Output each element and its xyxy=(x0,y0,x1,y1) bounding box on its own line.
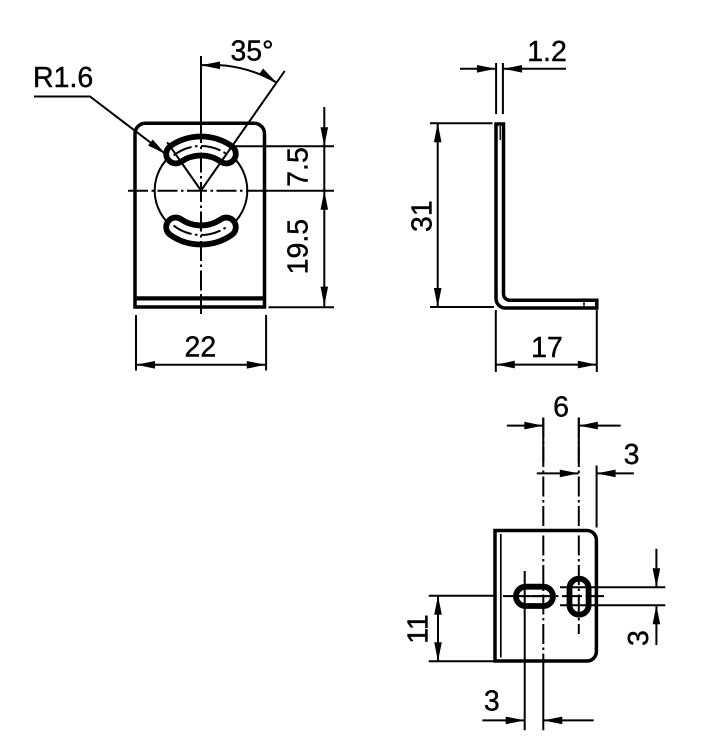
side end tick xyxy=(583,301,585,307)
ext line 1.2 left xyxy=(495,63,497,114)
ext line slot width top xyxy=(560,586,665,588)
R1.6 leader arrow xyxy=(148,139,165,154)
dim 6 left arrow line xyxy=(507,425,544,427)
dim line 11 xyxy=(437,596,439,662)
ext line 11 bottom xyxy=(429,660,494,662)
svg-text:6: 6 xyxy=(553,392,569,424)
svg-text:R1.6: R1.6 xyxy=(33,62,93,94)
dim line 22 xyxy=(136,364,266,366)
front vertical centerline solid upper part xyxy=(200,56,202,123)
ext line center right xyxy=(266,190,334,192)
svg-text:3: 3 xyxy=(484,686,500,718)
ext line slot width bottom xyxy=(560,604,665,606)
dim 3 top left arrow line xyxy=(537,472,579,474)
svg-text:19.5: 19.5 xyxy=(282,219,314,274)
front vertical centerline xyxy=(200,123,202,314)
svg-text:17: 17 xyxy=(531,332,563,364)
front horizontal centerline xyxy=(128,190,268,192)
horizontal slot xyxy=(516,587,553,606)
lower arc slot xyxy=(166,218,236,245)
ext line right edge xyxy=(596,466,598,528)
arrow 19.5 bottom xyxy=(321,287,329,306)
arrow 22 left xyxy=(136,361,155,369)
ext line bracket bottom right xyxy=(269,306,335,308)
angle line left 35deg xyxy=(167,142,201,190)
arrow arc left xyxy=(201,62,220,70)
ext line slot left arc xyxy=(524,571,526,730)
dim 3 right upper arrow line xyxy=(655,549,657,588)
angle line 35deg xyxy=(201,71,285,191)
arrow 7.5 top xyxy=(321,127,329,146)
centerline A vertical xyxy=(542,418,544,661)
ext line 1.2 right xyxy=(502,63,504,114)
ext line 22 right xyxy=(265,315,267,371)
svg-text:31: 31 xyxy=(406,200,438,232)
svg-text:35°: 35° xyxy=(230,36,273,68)
centerline B vertical xyxy=(578,418,580,635)
ext line 31 top xyxy=(430,122,493,124)
svg-text:7.5: 7.5 xyxy=(282,147,314,187)
circle sensor bore xyxy=(155,144,248,237)
R1.6 leader line xyxy=(34,97,166,155)
35 deg dimension arc xyxy=(201,65,277,83)
ext line 31 bottom xyxy=(430,306,494,308)
dim 3 top right arrow line xyxy=(597,472,634,474)
front view bend line xyxy=(137,296,263,300)
svg-text:3: 3 xyxy=(624,439,640,471)
ext line 17 right xyxy=(596,310,598,372)
bottom view outline xyxy=(495,531,596,662)
dim 6 right arrow line xyxy=(579,425,621,427)
svg-text:11: 11 xyxy=(403,614,435,644)
ext line 17 left xyxy=(495,310,497,372)
dim 3 bottom left arrow line xyxy=(482,719,524,721)
arrow arc right xyxy=(259,69,277,83)
lower slot centerline arc xyxy=(174,226,229,235)
dim 1.2 right arrow line xyxy=(503,68,566,70)
dim 3 right lower arrow line xyxy=(655,605,657,645)
upper arc slot xyxy=(166,137,236,164)
side view L profile xyxy=(496,124,597,308)
vertical slot xyxy=(570,579,589,615)
svg-text:22: 22 xyxy=(185,332,217,364)
front view bracket outline xyxy=(135,123,265,307)
arrow 19.5 top xyxy=(321,191,329,210)
ext line slot top xyxy=(232,145,334,147)
dim line 7.5/19.5 xyxy=(323,107,325,307)
centerline A solid ext xyxy=(542,660,544,730)
dim 3 bottom right arrow line xyxy=(543,719,593,721)
ext line 11 top xyxy=(429,595,494,597)
upper slot centerline arc xyxy=(174,146,229,155)
dim line 17 xyxy=(496,364,597,366)
dim line 31 xyxy=(437,123,439,307)
svg-text:3: 3 xyxy=(623,630,655,646)
dim 1.2 left arrow line xyxy=(460,68,496,70)
arrow 22 right xyxy=(247,361,266,369)
bottom horizontal centerline xyxy=(503,595,604,597)
svg-text:1.2: 1.2 xyxy=(527,36,567,68)
ext line 22 left xyxy=(135,315,137,371)
side bend tick top xyxy=(499,126,501,140)
bottom view bend line xyxy=(500,534,502,658)
